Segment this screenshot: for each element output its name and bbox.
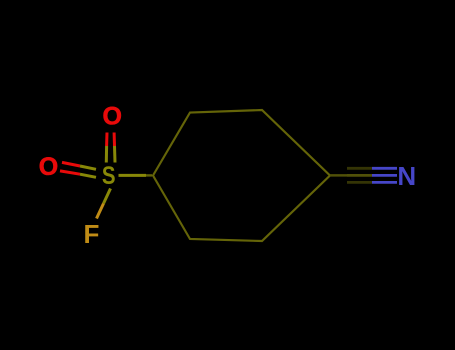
triple bond C#N	[347, 168, 397, 182]
svg-text:N: N	[397, 161, 416, 191]
svg-text:O: O	[102, 103, 121, 131]
wire S-F bond	[104, 189, 111, 204]
double bond S=O top	[106, 133, 115, 163]
svg-text:F: F	[84, 219, 100, 249]
wire ring-C single bond (nitrile)	[330, 174, 347, 177]
double bond S=O left	[60, 162, 96, 177]
svg-text:S: S	[102, 161, 116, 189]
svg-text:O: O	[39, 153, 58, 181]
wire S-C bond to ring	[119, 174, 147, 177]
benzene ring	[153, 110, 330, 241]
